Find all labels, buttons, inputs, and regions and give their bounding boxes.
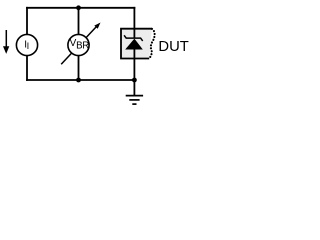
node top junction — [76, 5, 81, 10]
wire left column top — [26, 7, 28, 35]
voltmeter VBR — [61, 23, 100, 65]
wire bottom rail — [26, 79, 135, 81]
svg-text:l: l — [27, 41, 29, 52]
wire left column bottom — [26, 56, 28, 81]
zener diode (DUT) — [124, 35, 143, 49]
wire VBR branch top — [78, 8, 80, 35]
ground — [126, 80, 143, 104]
node bottom junction — [76, 78, 81, 83]
current direction arrow — [3, 30, 9, 54]
wire right column top — [133, 7, 135, 38]
wire right column bottom — [133, 49, 135, 81]
svg-text:DUT: DUT — [158, 39, 188, 55]
wire top rail — [26, 7, 135, 9]
wire VBR branch bottom — [78, 56, 80, 80]
DUT box — [121, 29, 155, 59]
current source I1 — [16, 34, 37, 55]
svg-text:BR: BR — [76, 40, 89, 51]
node ground junction — [132, 78, 137, 83]
